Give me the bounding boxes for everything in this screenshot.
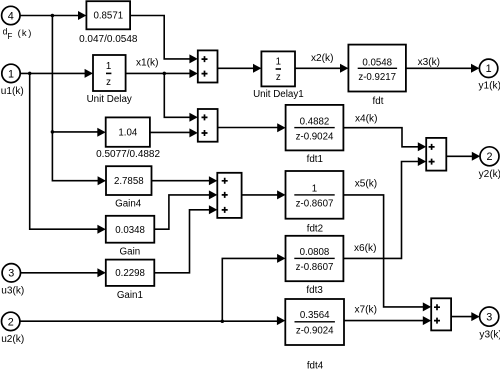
arrowhead into sum3 input2 <box>423 316 431 325</box>
junction on d_F line <box>51 14 55 18</box>
wire gain 0.2298 output up to big sum input3 <box>154 210 210 273</box>
wire x3 from fdt to output 1 <box>406 67 472 69</box>
svg-text:0.0548: 0.0548 <box>362 57 392 68</box>
arrowhead into gain 0.8571 <box>78 11 86 20</box>
svg-text:0.047/0.0548: 0.047/0.0548 <box>79 34 138 45</box>
label Gain4 <box>115 199 142 210</box>
svg-text:fdt4: fdt4 <box>307 360 324 371</box>
label 0.5077/0.4882 <box>96 149 160 160</box>
transfer fcn block fdt1 <box>286 105 344 150</box>
input port 3 u3(k) <box>1 264 24 297</box>
wire big sum output to fdt2 <box>242 194 279 196</box>
label fdt1 <box>307 154 323 165</box>
arrowhead into output port 3 <box>471 312 479 321</box>
label d_F(k) <box>3 27 32 41</box>
junction on u2 line <box>221 319 225 323</box>
arrowhead into big sum input2 <box>209 190 217 199</box>
svg-text:0.3564: 0.3564 <box>300 310 330 321</box>
wire u2 branch up to fdt3 <box>222 258 278 321</box>
svg-text:z: z <box>106 77 111 88</box>
svg-text:0.0348: 0.0348 <box>115 225 145 236</box>
wire from port 4 to gain 0.8571 <box>20 15 79 17</box>
junction on x1 line <box>163 72 167 76</box>
sum block Sum2a <box>198 109 218 142</box>
sum block Sum1 <box>198 50 218 82</box>
wire from port 3 to gain 0.2298 <box>21 272 99 274</box>
arrowhead into Unit Delay <box>85 69 93 78</box>
label x2(k) <box>311 53 333 64</box>
wire gain 0.0348 output up to big sum input2 <box>154 195 210 229</box>
unit delay block 1/z <box>93 55 126 91</box>
svg-text:fdt2: fdt2 <box>307 223 323 234</box>
svg-text:x6(k): x6(k) <box>354 243 376 254</box>
wire x4 from fdt1 to sum2 input1 <box>343 128 418 147</box>
svg-text:0.8571: 0.8571 <box>93 11 123 22</box>
svg-text:x5(k): x5(k) <box>355 178 377 189</box>
svg-text:2: 2 <box>8 316 14 328</box>
transfer fcn block fdt4 <box>285 299 344 345</box>
svg-text:3: 3 <box>486 312 492 324</box>
gain block 0.8571 <box>86 1 130 29</box>
svg-text:1: 1 <box>312 184 317 195</box>
wire u1 vertical branch down to gain 0.0348 <box>30 73 99 229</box>
transfer fcn block fdt2 <box>286 171 344 219</box>
arrowhead into Unit Delay1 <box>253 64 261 73</box>
svg-text:y2(k): y2(k) <box>479 169 500 180</box>
svg-text:0.0808: 0.0808 <box>300 247 330 258</box>
svg-text:Unit Delay: Unit Delay <box>87 94 132 105</box>
arrowhead into gain 0.0348 <box>97 225 105 234</box>
output port 1 y1(k) <box>479 59 500 91</box>
svg-text:2: 2 <box>486 151 492 163</box>
wire gain 1.04 output to sum2a input2 <box>150 131 190 133</box>
svg-text:): ) <box>28 27 31 38</box>
svg-text:1: 1 <box>486 63 492 75</box>
label Unit Delay <box>87 94 132 105</box>
svg-text:x1(k): x1(k) <box>136 57 158 68</box>
gain block 0.0348 <box>106 216 155 243</box>
sum block SumBig <box>217 173 241 218</box>
svg-text:0.2298: 0.2298 <box>115 268 145 279</box>
svg-text:z-0.9024: z-0.9024 <box>296 326 334 337</box>
output port 3 y3(k) <box>479 307 500 340</box>
wire from sum2a output to fdt1 <box>218 127 279 129</box>
sum block Sum3 <box>431 298 451 330</box>
arrowhead into gain 0.2298 <box>97 268 105 277</box>
unit delay1 block 1/z <box>261 51 295 86</box>
svg-text:k: k <box>22 27 27 38</box>
wire from port 2 to fdt4 <box>20 320 278 322</box>
arrowhead into sum2a input2 <box>189 128 197 137</box>
label x7(k) <box>355 304 377 315</box>
arrowhead into gain 2.7858 <box>98 176 106 185</box>
wire sum2 output to output port 2 <box>446 155 472 157</box>
label 0.047/0.0548 <box>79 34 138 45</box>
label x6(k) <box>354 243 376 254</box>
svg-text:y3(k): y3(k) <box>479 329 500 340</box>
svg-text:z-0.8607: z-0.8607 <box>296 262 334 273</box>
svg-text:u3(k): u3(k) <box>1 286 24 297</box>
arrowhead into fdt4 <box>277 316 285 325</box>
input port 1 u1(k) <box>1 64 24 97</box>
arrowhead into fdt3 <box>277 254 285 263</box>
wire from port 1 to Unit Delay <box>20 72 85 74</box>
svg-text:fdt3: fdt3 <box>306 285 323 296</box>
arrowhead into sum2 input2 <box>418 157 426 166</box>
svg-text:F: F <box>7 32 12 41</box>
label Gain <box>120 246 141 257</box>
svg-text:fdt: fdt <box>373 96 384 107</box>
arrowhead into big sum input1 <box>209 176 217 185</box>
wire x5 from fdt2 down to sum3 input1 <box>343 195 423 307</box>
svg-text:Gain4: Gain4 <box>115 199 142 210</box>
gain block 0.2298 <box>106 260 155 286</box>
arrowhead into big sum input3 <box>209 205 217 214</box>
svg-text:y1(k): y1(k) <box>479 81 500 92</box>
svg-text:x4(k): x4(k) <box>355 113 377 124</box>
gain block 1.04 <box>106 117 150 146</box>
wire x1 branch down to sum2a input1 <box>164 73 190 117</box>
arrowhead into sum1 input2 <box>189 69 197 78</box>
gain block 2.7858 <box>106 166 152 195</box>
wire x2 from Unit Delay1 to fdt <box>295 67 341 69</box>
svg-text:1.04: 1.04 <box>118 128 137 139</box>
input port 4 d_F(k) <box>2 6 20 24</box>
svg-text:0.4882: 0.4882 <box>300 116 330 127</box>
junction on u1 line <box>28 72 32 76</box>
arrowhead into sum1 input1 <box>189 54 197 63</box>
svg-text:Gain: Gain <box>120 246 141 257</box>
arrowhead into fdt <box>340 64 348 73</box>
arrowhead into gain 1.04 <box>97 128 105 137</box>
arrowhead into output port 1 <box>471 64 479 73</box>
input port 2 u2(k) <box>1 312 24 345</box>
svg-text:3: 3 <box>8 268 14 280</box>
svg-text:x7(k): x7(k) <box>355 304 377 315</box>
svg-text:1: 1 <box>276 57 281 68</box>
label fdt2 <box>307 223 323 234</box>
svg-text:z-0.9217: z-0.9217 <box>358 72 396 83</box>
arrowhead into sum2 input1 <box>418 142 426 151</box>
label fdt3 <box>306 285 323 296</box>
label Gain1 <box>117 290 143 301</box>
junction on d_F vertical at 1.04 row <box>51 130 55 134</box>
svg-text:x3(k): x3(k) <box>418 57 440 68</box>
sum block Sum2 <box>426 138 446 171</box>
svg-text:u1(k): u1(k) <box>1 86 24 97</box>
wire x7 from fdt4 to sum3 input2 <box>344 320 424 322</box>
svg-text:z: z <box>276 72 281 83</box>
label x4(k) <box>355 113 377 124</box>
wire x6 from fdt3 up to sum2 input2 <box>343 162 418 259</box>
wire sum1 output to Unit Delay1 <box>218 67 255 69</box>
label x5(k) <box>355 178 377 189</box>
arrowhead into sum3 input1 <box>423 302 431 311</box>
output port 2 y2(k) <box>479 147 500 180</box>
svg-text:4: 4 <box>8 10 14 22</box>
wire x1 from Unit Delay to sum1 input2 <box>126 72 191 74</box>
wire sum3 output to output port 3 <box>451 316 472 318</box>
arrowhead into fdt2 <box>277 190 285 199</box>
svg-text:u2(k): u2(k) <box>1 334 24 345</box>
svg-text:z-0.8607: z-0.8607 <box>296 199 334 210</box>
wire gain 2.7858 output to big sum input1 <box>152 180 210 182</box>
transfer fcn block fdt <box>348 45 406 92</box>
label x3(k) <box>418 57 440 68</box>
svg-text:Unit Delay1: Unit Delay1 <box>253 89 304 100</box>
svg-text:fdt1: fdt1 <box>307 154 323 165</box>
wire d_F branch to gain 1.04 <box>52 131 98 133</box>
svg-text:0.5077/0.4882: 0.5077/0.4882 <box>96 149 160 160</box>
label fdt <box>373 96 384 107</box>
wire d_F vertical branch down to 1.04 and 2.7858 <box>52 16 98 181</box>
svg-text:1: 1 <box>106 61 111 72</box>
label x1(k) <box>136 57 158 68</box>
label fdt4 <box>307 360 324 371</box>
svg-text:Gain1: Gain1 <box>117 290 143 301</box>
svg-text:z-0.9024: z-0.9024 <box>296 131 334 142</box>
svg-text:2.7858: 2.7858 <box>114 176 144 187</box>
transfer fcn block fdt3 <box>286 236 344 281</box>
arrowhead into fdt1 <box>277 123 285 132</box>
label Unit Delay1 <box>253 89 304 100</box>
arrowhead into output port 2 <box>472 152 480 161</box>
svg-text:1: 1 <box>8 68 14 80</box>
svg-text:x2(k): x2(k) <box>311 53 333 64</box>
arrowhead into sum2a input1 <box>189 113 197 122</box>
wire gain 0.8571 output to sum1 input1 <box>130 16 190 59</box>
